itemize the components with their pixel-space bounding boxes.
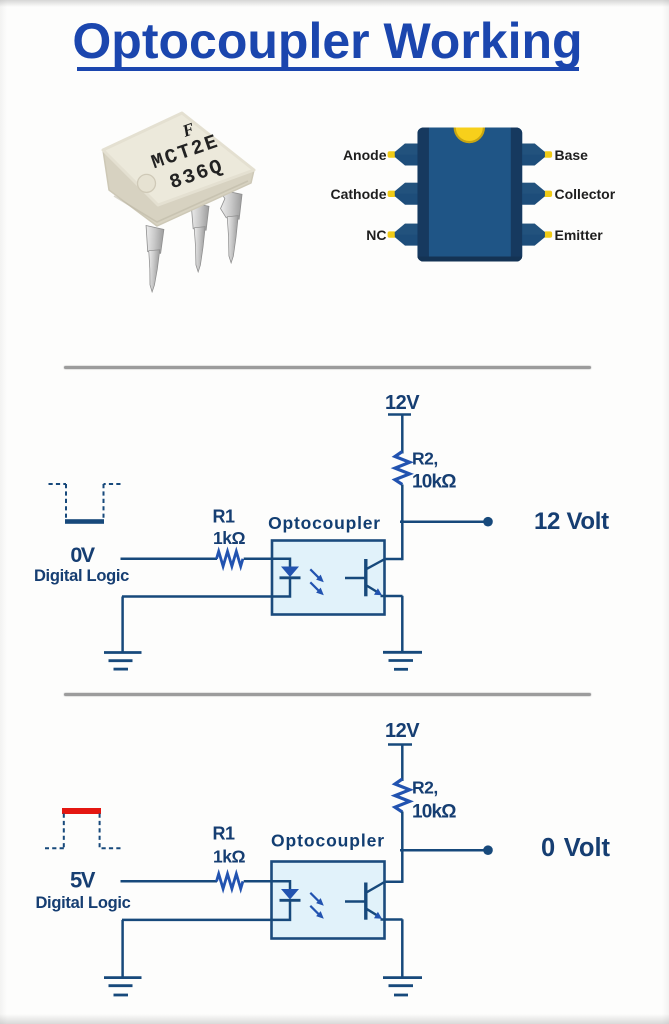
svg-text:10kΩ: 10kΩ — [412, 472, 456, 493]
wire input to R1 — [121, 558, 218, 561]
svg-text:5V: 5V — [70, 868, 96, 893]
svg-text:Digital Logic: Digital Logic — [34, 567, 129, 585]
svg-text:Cathode: Cathode — [331, 186, 387, 202]
notch — [455, 113, 484, 142]
resistor R1 — [217, 551, 243, 566]
svg-text:10kΩ: 10kΩ — [412, 802, 456, 823]
wire ground left vertical — [121, 597, 124, 653]
wire emitter down to ground 2 — [401, 919, 404, 977]
wire node to collector — [401, 520, 404, 560]
svg-text:12V: 12V — [385, 720, 420, 742]
svg-text:0 Volt: 0 Volt — [541, 834, 611, 862]
LED D2 anode triangle — [281, 889, 299, 900]
wire 12V to R2 2 — [401, 745, 404, 781]
svg-text:Emitter: Emitter — [555, 227, 604, 243]
chip dimple — [138, 174, 156, 192]
wire emitter to ground wire 2 — [381, 918, 403, 921]
light arrow 1 circuit2 — [310, 893, 324, 906]
node output dot — [483, 517, 493, 527]
svg-text:12 Volt: 12 Volt — [534, 508, 609, 535]
svg-text:Base: Base — [555, 147, 589, 163]
photo: MCT2E optocoupler chip — [90, 100, 265, 305]
chip pin 3 — [219, 191, 242, 264]
wire LED cathode down-left 2 — [122, 901, 290, 920]
phototransistor base stub — [345, 577, 365, 579]
wire input to R1 2 — [121, 880, 218, 883]
supply terminal bar — [388, 413, 411, 416]
optocoupler U2 box — [272, 862, 385, 939]
wire 12V to R2 — [401, 415, 404, 454]
IC body — [417, 113, 522, 262]
svg-text:1kΩ: 1kΩ — [213, 528, 245, 548]
wire R2 to node 2 — [401, 812, 404, 852]
phototransistor base stub 2 — [345, 900, 365, 902]
optocoupler U1 box — [272, 541, 385, 615]
svg-text:R1: R1 — [212, 507, 234, 527]
LED D1 anode triangle — [281, 567, 299, 578]
wire emitter down to ground — [401, 596, 404, 653]
wire emitter to ground wire — [381, 595, 403, 598]
LED D1 cathode bar — [280, 576, 301, 579]
pin 2 Cathode — [388, 183, 418, 205]
svg-text:0V: 0V — [70, 543, 95, 567]
svg-text:R2,: R2, — [412, 778, 438, 798]
svg-text:Collector: Collector — [555, 186, 616, 202]
svg-text:Optocoupler: Optocoupler — [268, 513, 381, 533]
wire node to output dot 2 — [400, 849, 485, 852]
chip body top face — [103, 113, 254, 205]
wire node to output dot — [400, 521, 485, 524]
wire node to collector 2 — [401, 849, 404, 883]
chip body side faces — [103, 113, 254, 226]
input waveform pulse high red — [45, 808, 121, 848]
wire R1 to LED 2 — [244, 881, 290, 889]
pin 6 Base — [522, 144, 552, 166]
wire ground left vertical 2 — [121, 920, 124, 978]
separator line 1 — [64, 366, 591, 369]
ground left — [104, 653, 142, 670]
phototransistor emitter lead — [366, 585, 382, 595]
resistor R1 circuit2 — [217, 874, 243, 889]
title: Optocoupler Working — [0, 0, 669, 1]
resistor R2 circuit2 — [395, 779, 410, 812]
phototransistor Q1 bar — [364, 559, 367, 596]
separator line 2 — [64, 693, 591, 696]
light arrow 2 circuit2 — [310, 906, 324, 919]
node output dot 2 — [483, 845, 493, 855]
pin 4 Emitter — [522, 224, 552, 246]
supply terminal bar 2 — [388, 743, 412, 746]
light arrow 1 — [310, 569, 324, 582]
chip pin 1 — [143, 226, 164, 293]
svg-text:12V: 12V — [385, 392, 420, 414]
pin 1 Anode — [388, 144, 418, 166]
LED D2 cathode bar — [280, 899, 301, 902]
svg-text:R2,: R2, — [412, 449, 438, 469]
svg-text:R1: R1 — [212, 824, 234, 844]
wire R2 to node — [401, 485, 404, 524]
pinout diagram of optocoupler — [330, 110, 640, 275]
wire LED cathode down-left — [122, 578, 290, 597]
input waveform pulse low — [49, 484, 121, 524]
ground left circuit2 — [104, 978, 142, 995]
ground right — [383, 652, 422, 669]
svg-text:Digital Logic: Digital Logic — [35, 894, 130, 912]
wire R1 to LED — [244, 559, 290, 567]
pin 3 NC — [388, 224, 418, 246]
ground right circuit2 — [383, 978, 422, 995]
chip pin 2 — [189, 203, 209, 273]
phototransistor collector lead 2 — [366, 882, 384, 893]
svg-text:Optocoupler: Optocoupler — [271, 831, 385, 851]
chip body bottom seam — [114, 181, 248, 222]
phototransistor Q2 bar — [364, 883, 367, 920]
wire collector horizontal — [384, 558, 403, 561]
pin 5 Collector — [522, 183, 552, 205]
wire collector horizontal 2 — [384, 880, 403, 883]
resistor R2 — [395, 452, 410, 485]
phototransistor collector lead — [366, 559, 384, 569]
svg-text:1kΩ: 1kΩ — [213, 847, 245, 867]
phototransistor emitter lead 2 — [366, 909, 382, 919]
svg-text:Anode: Anode — [343, 147, 387, 163]
light arrow 2 — [310, 582, 324, 595]
svg-text:NC: NC — [366, 227, 386, 243]
